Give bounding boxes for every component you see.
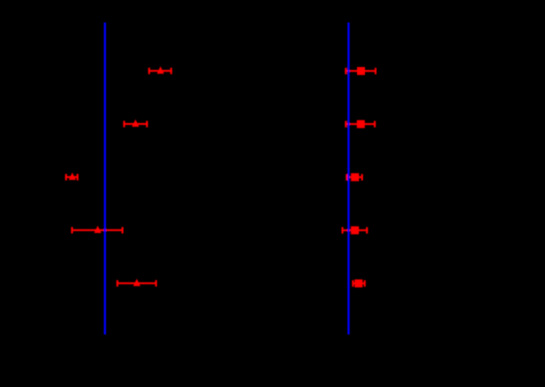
left panel: red error bars with triangle markers — [65, 66, 172, 286]
errorbar R1 — [345, 67, 377, 75]
errorbar R3 — [346, 173, 363, 181]
errorbar L5 — [116, 279, 157, 287]
errorbar L3 — [65, 173, 78, 181]
errorbar R5 — [352, 279, 366, 287]
errorbar L4 — [71, 226, 123, 234]
errorbar R2 — [345, 120, 376, 128]
errorbar L2 — [123, 119, 148, 127]
right panel: red error bars with square markers — [342, 67, 377, 287]
right reference line (blue) — [348, 23, 350, 335]
errorbar L1 — [148, 66, 172, 74]
left reference line (blue) — [104, 23, 106, 335]
errorbar R4 — [342, 226, 368, 234]
